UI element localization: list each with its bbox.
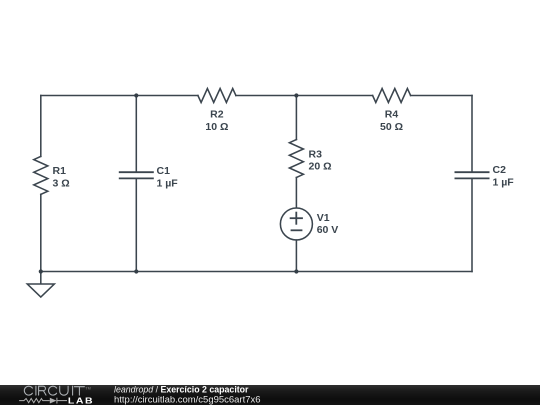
wire C2 branch lower <box>471 178 473 271</box>
svg-text:60 V: 60 V <box>317 224 339 236</box>
svg-text:C2: C2 <box>493 164 507 176</box>
svg-text:1 µF: 1 µF <box>493 177 515 189</box>
wire top rail right segment <box>411 95 472 97</box>
wire C2 branch upper <box>471 96 473 173</box>
svg-text:TM: TM <box>85 386 91 390</box>
ground <box>27 272 54 298</box>
resistor R3 <box>289 140 303 178</box>
svg-text:1 µF: 1 µF <box>157 177 179 189</box>
svg-text:50 Ω: 50 Ω <box>380 121 403 133</box>
wire C1 branch upper <box>135 96 137 173</box>
wire V1 to bottom rail <box>295 240 297 272</box>
resistor R2 <box>198 89 236 103</box>
wire left branch lower <box>40 194 42 271</box>
node dot C1 top <box>134 93 138 97</box>
node dot ground <box>39 269 43 273</box>
svg-text:3 Ω: 3 Ω <box>53 178 70 190</box>
wire R3 branch upper <box>295 96 297 140</box>
wire top rail left segment <box>41 95 198 97</box>
logo resistor-diode line <box>19 397 67 403</box>
wire top rail middle segment <box>236 95 373 97</box>
svg-text:R3: R3 <box>309 149 323 161</box>
capacitor C1 <box>120 172 153 178</box>
node dot V1 bottom <box>294 269 298 273</box>
wire C1 branch lower <box>135 178 137 271</box>
resistor R1 <box>34 156 48 194</box>
wire bottom rail <box>41 271 472 273</box>
svg-text:LAB: LAB <box>68 396 94 405</box>
logo CIRCUIT stroked letters <box>24 386 84 395</box>
resistor R4 <box>373 89 411 103</box>
svg-text:C1: C1 <box>157 165 171 177</box>
wire R3 to V1 <box>295 178 297 209</box>
capacitor C2 <box>455 172 488 178</box>
svg-text:R2: R2 <box>210 109 224 121</box>
footer bar <box>0 385 540 406</box>
svg-text:R1: R1 <box>53 165 67 177</box>
node dot R3 top <box>294 93 298 97</box>
svg-text:R4: R4 <box>385 109 399 121</box>
svg-text:http://circuitlab.com/c5g95c6a: http://circuitlab.com/c5g95c6art7x6 <box>114 394 261 405</box>
svg-text:20 Ω: 20 Ω <box>309 161 332 173</box>
svg-text:10 Ω: 10 Ω <box>205 121 228 133</box>
wire left branch upper <box>40 96 42 157</box>
node dot C1 bottom <box>134 269 138 273</box>
logo diode triangle <box>50 397 57 403</box>
voltage source V1 <box>280 208 312 240</box>
svg-text:V1: V1 <box>317 212 330 224</box>
